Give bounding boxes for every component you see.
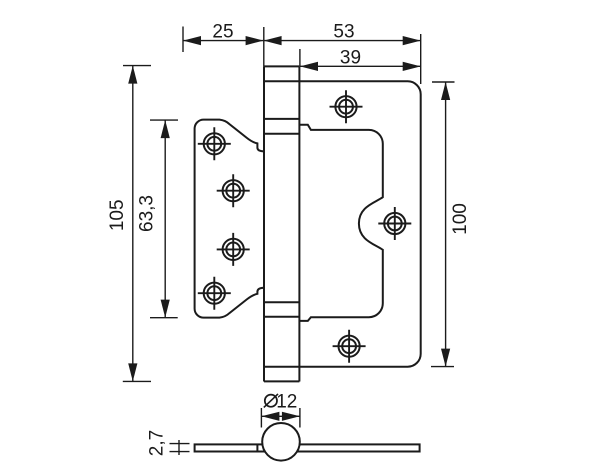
svg-text:53: 53 (333, 21, 354, 42)
svg-text:63,3: 63,3 (136, 195, 157, 232)
svg-text:12: 12 (276, 391, 297, 412)
svg-text:39: 39 (340, 47, 361, 68)
svg-text:105: 105 (107, 199, 128, 231)
svg-text:25: 25 (212, 22, 233, 43)
svg-text:2,7: 2,7 (147, 430, 168, 456)
svg-text:100: 100 (450, 203, 471, 235)
